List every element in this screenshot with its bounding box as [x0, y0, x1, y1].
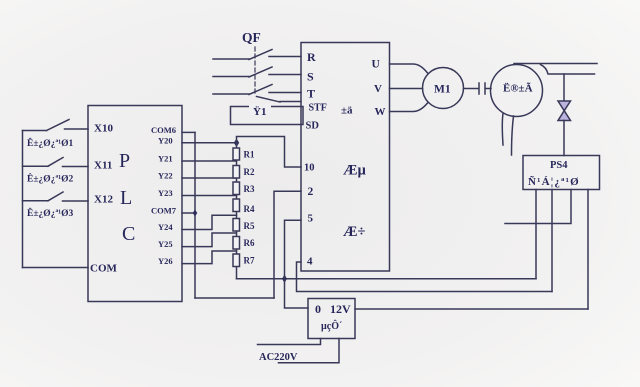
junction chain top [234, 139, 239, 148]
switch bus vertical [22, 131, 24, 268]
wire W to motor [390, 103, 428, 112]
wire V to motor [390, 88, 423, 90]
resistor R5 [233, 219, 240, 232]
svg-text:2: 2 [308, 186, 314, 198]
svg-text:10: 10 [304, 163, 315, 174]
resistor R4 [233, 199, 240, 212]
pressure sensor PS4 box [523, 156, 600, 190]
svg-text:0: 0 [315, 302, 321, 316]
svg-text:±ä: ±ä [341, 105, 353, 117]
svg-text:Æµ: Æµ [343, 163, 367, 179]
svg-text:Ÿ1: Ÿ1 [253, 105, 266, 118]
wire supply AC lead 1 [258, 339, 321, 345]
svg-text:M1: M1 [434, 84, 451, 96]
svg-text:5: 5 [308, 213, 314, 225]
wire Y25 [182, 233, 237, 247]
resistor R6 [233, 237, 240, 250]
pump suction pipe right [512, 116, 514, 155]
wire supply AC lead 2 [279, 339, 340, 363]
svg-text:Y22: Y22 [158, 171, 173, 181]
wire terminal 4 to PS4 pin2 [297, 262, 553, 292]
svg-text:P: P [119, 150, 130, 172]
svg-text:COM: COM [90, 263, 118, 275]
svg-text:Ñ¹Á¦¿ª¹Ø: Ñ¹Á¦¿ª¹Ø [528, 176, 580, 188]
resistor chain vertical [236, 143, 238, 279]
svg-text:X11: X11 [94, 160, 112, 172]
svg-text:Ë®±Ã: Ë®±Ã [503, 82, 533, 95]
wire COM7 [182, 212, 195, 214]
svg-text:Y25: Y25 [158, 239, 173, 249]
wire valve to PS4 [563, 121, 565, 156]
svg-text:QF: QF [242, 30, 261, 45]
wire phase R left feed [213, 58, 249, 60]
svg-text:Y26: Y26 [158, 256, 173, 266]
breaker QF mechanical link (dashed) [254, 47, 256, 96]
wire Y21 [182, 160, 237, 162]
svg-text:R3: R3 [244, 184, 255, 194]
PS4 pin 1 wire [535, 190, 537, 279]
PS4 pin 4 wire [587, 190, 589, 310]
switch S1 left stub [23, 130, 47, 132]
wire COM bus to terminal 5 riser [195, 297, 274, 299]
svg-text:Æ÷: Æ÷ [343, 224, 366, 240]
valve V1 [558, 101, 571, 111]
wire phase R to inverter R [269, 56, 301, 58]
PS4 pin 3 wire [505, 190, 571, 224]
switch S2 blade [48, 158, 63, 167]
resistor R3 [233, 182, 240, 195]
wire phase T left feed [213, 93, 249, 95]
breaker QF pole T blade [249, 85, 272, 95]
wire phase S left feed [213, 76, 249, 78]
wire S1 to X10 [65, 128, 89, 130]
wire S2 to X11 [63, 166, 89, 168]
svg-text:Ê±¿Ø¿ª¹Ø1: Ê±¿Ø¿ª¹Ø1 [27, 137, 74, 149]
switch S3 blade [48, 192, 63, 201]
wire S3 to X12 [63, 200, 89, 202]
svg-text:Ê±¿Ø¿ª¹Ø3: Ê±¿Ø¿ª¹Ø3 [27, 207, 74, 219]
valve drop pipe [563, 74, 565, 101]
svg-text:Y23: Y23 [158, 188, 173, 198]
wire phase S to inverter S [269, 74, 301, 76]
switch S3 left stub [23, 200, 49, 202]
svg-text:Y24: Y24 [158, 222, 173, 232]
svg-text:Y21: Y21 [158, 154, 173, 164]
svg-text:PS4: PS4 [550, 160, 568, 171]
svg-text:AC220V: AC220V [259, 352, 298, 363]
svg-text:Y20: Y20 [158, 136, 173, 146]
wire terminal 2 riser [274, 191, 301, 298]
svg-text:R6: R6 [244, 238, 255, 248]
switch S1 blade [47, 120, 70, 131]
svg-text:X12: X12 [94, 194, 113, 206]
PLC U1 box [88, 106, 182, 302]
pump P1 [491, 65, 543, 117]
svg-text:4: 4 [307, 256, 313, 268]
svg-text:R4: R4 [244, 204, 255, 214]
svg-text:L: L [120, 187, 132, 209]
wire phase T to inverter T [269, 92, 301, 94]
wire STF [280, 101, 301, 103]
wire chain top to terminal 10 [237, 137, 302, 168]
shaft coupling [464, 88, 479, 90]
svg-text:COM6: COM6 [151, 125, 176, 135]
relay Y1 box to SD [231, 107, 304, 125]
wire supply 12V to PS4 pin4 [355, 308, 588, 310]
discharge pipe upper [514, 63, 597, 65]
discharge pipe lower [541, 65, 595, 75]
relay contact Y1 blade (STF) [257, 97, 281, 103]
junction node A [282, 275, 287, 284]
wire Y26 [182, 251, 237, 264]
motor M1 [423, 68, 464, 109]
PS4 pin 2 wire [551, 190, 553, 292]
wire Y20 [182, 142, 237, 144]
svg-text:R7: R7 [244, 256, 255, 266]
wire chain bottom to PS4 pin1 [237, 278, 537, 280]
breaker QF pole S blade [249, 67, 272, 77]
power supply PS box [308, 299, 355, 339]
svg-text:STF: STF [309, 103, 327, 114]
svg-text:T: T [307, 87, 315, 101]
svg-text:V: V [374, 83, 382, 95]
svg-text:SD: SD [306, 121, 320, 132]
svg-text:U: U [372, 59, 381, 71]
wire bus to PLC COM [23, 267, 89, 269]
relay Y1 label [249, 105, 271, 115]
wire COM6 [182, 131, 195, 133]
wire Y22 [182, 177, 237, 179]
svg-text:Ê±¿Ø¿ª¹Ø2: Ê±¿Ø¿ª¹Ø2 [27, 173, 74, 185]
svg-text:X10: X10 [94, 123, 113, 135]
resistor R1 [233, 148, 240, 160]
svg-text:COM7: COM7 [151, 206, 177, 216]
inverter U2 box [301, 43, 390, 272]
pump suction pipe left [501, 114, 504, 146]
svg-text:12V: 12V [330, 302, 351, 316]
svg-text:S: S [307, 70, 314, 84]
resistor R2 [233, 166, 240, 179]
svg-text:R1: R1 [244, 150, 255, 160]
wire COM bus vertical [194, 132, 196, 298]
svg-text:R5: R5 [244, 221, 255, 231]
wire U to motor [390, 64, 428, 73]
wire terminal 5 down to supply 0 [285, 220, 309, 308]
svg-text:R2: R2 [244, 167, 255, 177]
resistor R7 [233, 254, 240, 267]
svg-text:C: C [122, 223, 135, 245]
svg-text:R: R [307, 50, 316, 64]
wire Y23 [182, 195, 237, 197]
wire Y24 [182, 215, 237, 229]
svg-text:W: W [375, 106, 386, 118]
breaker QF pole R blade [249, 50, 272, 60]
junction COM7 [193, 210, 198, 217]
svg-text:µçÔ´: µçÔ´ [321, 319, 342, 332]
switch S2 left stub [23, 165, 49, 167]
